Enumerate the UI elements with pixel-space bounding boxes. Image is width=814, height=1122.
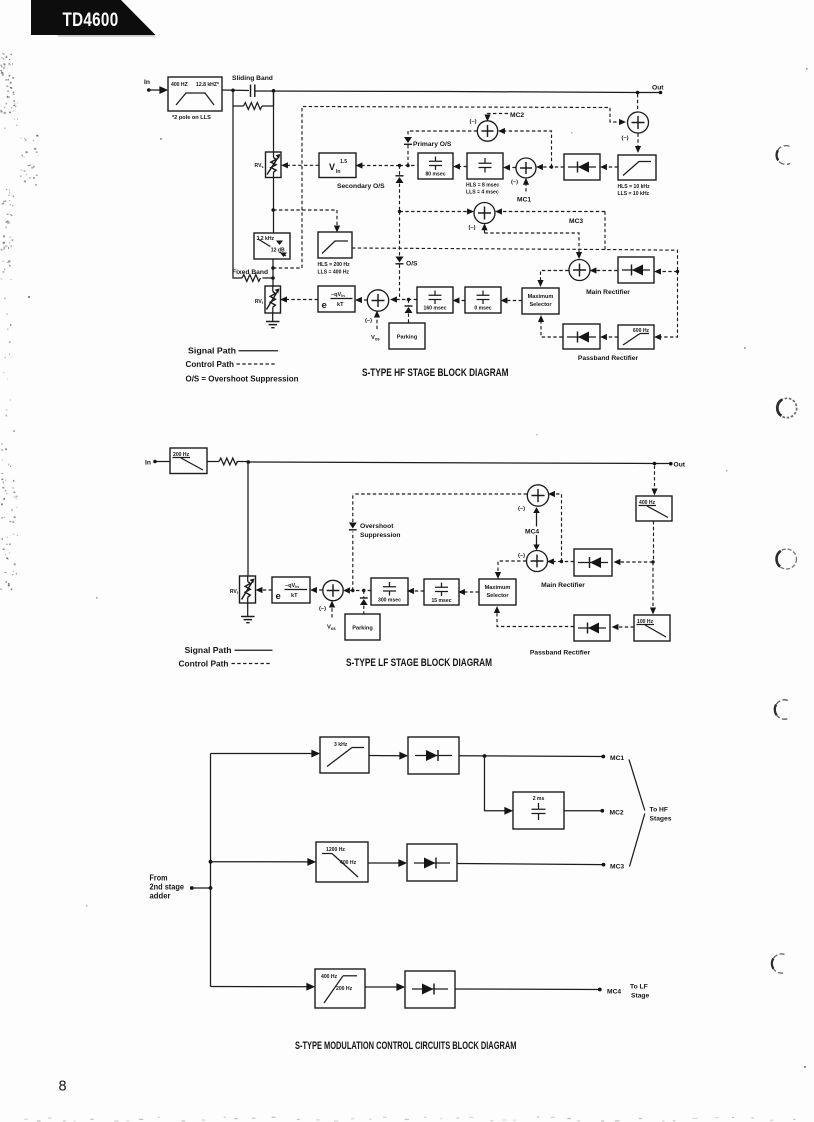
box 3 kHz filter (320, 737, 369, 773)
box 80 msec (418, 153, 453, 179)
svg-text:Stage: Stage (631, 993, 649, 1000)
wire dashed right feed into MC3 adder (499, 211, 606, 213)
wire dashed MC2 control input (488, 112, 525, 119)
svg-text:O/S = Overshoot Suppression: O/S = Overshoot Suppression (186, 374, 299, 383)
wire dashed MC3 adder minus input from 233-line (484, 227, 486, 233)
wire bus to row2 filter (211, 861, 314, 863)
svg-text:12 dB: 12 dB (271, 248, 285, 254)
svg-text:Selector: Selector (486, 593, 509, 599)
svg-text:LLS = 400 Hz: LLS = 400 Hz (318, 270, 350, 276)
svg-text:S-TYPE MODULATION CONTROL CIRC: S-TYPE MODULATION CONTROL CIRCUITS BLOCK… (295, 1040, 517, 1052)
header black banner TD4600 (31, 0, 156, 37)
svg-text:MC3: MC3 (569, 218, 583, 225)
wire dashed output adder to 10kHz filter (637, 134, 639, 150)
box rectifier HF top (564, 154, 600, 180)
svg-text:Control Path: Control Path (179, 660, 229, 669)
svg-text:80 msec: 80 msec (425, 172, 445, 178)
svg-text:Signal Path: Signal Path (188, 347, 236, 356)
box Parking LF (345, 614, 380, 640)
box 100 Hz filter LF (634, 615, 670, 641)
box diode row2 (407, 844, 457, 881)
scan noise left margin (0, 53, 39, 590)
diode on junctionA down branch (396, 166, 404, 214)
svg-text:3 kHz: 3 kHz (334, 742, 348, 748)
label HLS 200 Hz (318, 262, 351, 276)
modulation control circuits diagram (150, 737, 672, 1008)
wire bus to row3 filter (211, 986, 313, 988)
box HLS 10kHz filter (618, 155, 656, 180)
box exponential LF (272, 577, 310, 603)
wire dashed S1 to e-box (359, 299, 368, 301)
wire dashed 400Hz box down to 100Hz box (652, 521, 655, 611)
svg-text:O/S: O/S (406, 261, 418, 268)
wire dashed MC1 control input (517, 181, 531, 203)
svg-text:(–): (–) (622, 136, 629, 142)
attenuator box 3.2 kHz 12 dB (254, 233, 290, 259)
HF legend (186, 347, 299, 384)
summing junction MC4 upper adder (518, 485, 549, 512)
wire row3 filter to diode box (365, 986, 403, 988)
input filter box 400HZ-12.8kHZ (168, 77, 222, 111)
svg-text:Overshoot: Overshoot (360, 523, 394, 530)
diode primary O/S on MC2 drop (404, 131, 412, 166)
ground below RVf (266, 313, 280, 328)
LF stage diagram (145, 448, 686, 657)
wire dashed selector to 15msec (462, 591, 480, 593)
svg-text:e: e (276, 591, 281, 602)
wire dashed 15msec to 300msec (411, 590, 425, 592)
svg-text:RVf: RVf (230, 589, 239, 595)
box 160 msec (417, 287, 453, 313)
svg-text:*2 pole on LLS: *2 pole on LLS (172, 115, 211, 121)
box main rectifier LF (574, 549, 612, 576)
wire dashed junctionB to 80msec box (400, 165, 418, 167)
svg-text:Control Path: Control Path (186, 360, 235, 369)
svg-text:MC3: MC3 (610, 864, 624, 871)
punch hole 1 (777, 146, 790, 165)
svg-text:kT: kT (291, 593, 298, 599)
wire dashed S2 to e-box (314, 589, 323, 591)
wire dashed Vos into S1 (371, 314, 380, 342)
wire RVs down to 3.2kHz box (271, 178, 275, 234)
wire dashed 100Hz to passband LF (615, 626, 634, 628)
svg-text:LLS = 10 kHz: LLS = 10 kHz (618, 191, 650, 197)
svg-text:MC2: MC2 (510, 112, 524, 119)
svg-text:S-TYPE LF STAGE BLOCK DIAGRA: S-TYPE LF STAGE BLOCK DIAGRAM (346, 657, 492, 669)
diode O/S (396, 257, 404, 300)
summing junction output adder (622, 112, 649, 142)
svg-text:Passband Rectifier: Passband Rectifier (530, 650, 591, 657)
wire 3.2kHz box to RVf (271, 259, 275, 286)
wire row2 to MC3 (457, 863, 605, 867)
svg-text:MC1: MC1 (517, 197, 531, 204)
svg-text:TD4600: TD4600 (63, 8, 119, 30)
wire dashed 0msec to 160msec (456, 300, 465, 302)
summing junction MC1 adder (511, 158, 536, 186)
svg-text:Passband Rectifier: Passband Rectifier (578, 355, 639, 362)
svg-text:MC2: MC2 (610, 810, 624, 817)
wire dashed selector to 0msec (504, 300, 522, 302)
wire dashed right column down to 600Hz box (658, 272, 678, 338)
wire dashed Vos into S2 (327, 604, 336, 631)
summing junction S2 LF (319, 580, 343, 612)
box 600 Hz filter (618, 325, 654, 349)
wire bus to 3kHz box (211, 753, 318, 755)
box HLS200 filter (318, 232, 352, 258)
wire dashed MC4 adder output left line (353, 493, 527, 495)
svg-text:LLS = 4 msec: LLS = 4 msec (466, 190, 499, 196)
box 2 ms (513, 792, 564, 829)
svg-text:To LF: To LF (630, 984, 648, 991)
svg-text:Main Rectifier: Main Rectifier (586, 289, 630, 296)
wire dashed MC1 adder to HLS8 box (507, 167, 516, 169)
box main rectifier HF (618, 257, 654, 283)
svg-text:V: V (329, 162, 335, 172)
wire dashed junction up to MC2 adder (502, 131, 552, 167)
box passband rectifier LF (574, 615, 610, 641)
svg-text:1200 Hz: 1200 Hz (326, 847, 345, 853)
svg-text:Sliding Band: Sliding Band (232, 75, 273, 82)
svg-text:(–): (–) (469, 225, 476, 231)
wire 3kHz to diode box row1 (369, 755, 406, 757)
svg-text:adder: adder (150, 892, 171, 901)
wire dashed 250-line from HLS200 box to right column (352, 248, 679, 273)
bracket to HF stages (629, 760, 672, 867)
svg-text:Vos: Vos (327, 625, 336, 632)
wire dashed right column into main rect box (658, 271, 678, 273)
wire dashed MC2 adder output to drop (408, 130, 477, 132)
svg-text:Vos: Vos (371, 335, 380, 342)
svg-text:HLS = 10 kHz: HLS = 10 kHz (618, 184, 651, 190)
summing junction main adder LF (518, 551, 548, 572)
capacitor sliding band (251, 85, 255, 98)
wire In to 200Hz box (155, 461, 170, 463)
svg-text:2 ms: 2 ms (533, 796, 545, 802)
box Parking HF (389, 323, 425, 349)
wire branch down to 2ms box (485, 756, 511, 811)
wire dashed passband LF to selector bottom (497, 610, 574, 627)
box 0 msec (465, 287, 501, 313)
wire row1 to MC1 (459, 754, 605, 758)
wire MC4 control double arrow (524, 507, 542, 550)
svg-text:To HF: To HF (650, 807, 668, 814)
punch hole 2 (777, 398, 796, 417)
svg-text:HLS = 200 Hz: HLS = 200 Hz (318, 262, 351, 268)
svg-text:(–): (–) (511, 180, 518, 186)
svg-text:RVf: RVf (255, 299, 264, 305)
variable resistor RVs (255, 152, 281, 178)
svg-text:MC1: MC1 (610, 755, 624, 762)
wire right vertical into RVs (273, 91, 275, 152)
wire bus vertical (209, 754, 213, 987)
svg-text:In: In (145, 460, 151, 467)
wire dashed e-box to RVf (284, 299, 319, 301)
wire dashed junctionC through O/S diode to S1 line (399, 212, 401, 256)
svg-text:1.5: 1.5 (340, 159, 347, 165)
wire dashed MC3 feed corner down to 250-line (604, 212, 606, 250)
wire dashed junction to main adder LF (551, 561, 562, 563)
wire dashed passband to selector bottom (541, 319, 563, 338)
box Maximum Selector LF (479, 579, 516, 605)
label Overshoot Suppression (360, 523, 401, 539)
wire dashed rectifier output to MC1 adder junction (540, 165, 565, 168)
wire dashed main rect box to adder (593, 270, 618, 272)
svg-text:Parking: Parking (397, 335, 418, 341)
svg-text:Secondary O/S: Secondary O/S (337, 183, 385, 190)
svg-text:400 Hz: 400 Hz (321, 974, 338, 980)
svg-text:(–): (–) (470, 119, 477, 125)
wire dashed 10kHz filter to rectifier (604, 166, 619, 168)
svg-text:Primary O/S: Primary O/S (413, 141, 452, 148)
wire 2ms to MC2 (564, 809, 604, 813)
diode into parking branch (405, 300, 413, 324)
wire dashed HLS8 box to 80msec (457, 166, 468, 168)
wire dashed main adder to selector top (541, 271, 569, 284)
diode overshoot suppression (349, 494, 357, 530)
box passband rectifier HF (563, 324, 600, 349)
wire LF main line to Out (247, 460, 673, 465)
svg-text:Parking: Parking (352, 626, 373, 632)
variable resistor RVf (255, 286, 281, 313)
svg-text:–qVIn: –qVIn (331, 292, 345, 298)
svg-text:HLS = 8 msec: HLS = 8 msec (466, 183, 499, 189)
svg-text:12.8 kHZ*: 12.8 kHZ* (196, 82, 219, 88)
box 400Hz 200Hz shelf filter (315, 969, 365, 1008)
box 400 Hz filter LF (636, 496, 672, 521)
wire dashed main adder LF to selector top (498, 561, 526, 576)
svg-text:(–): (–) (319, 606, 326, 612)
node output (636, 85, 664, 95)
wire In to input filter (149, 89, 166, 91)
svg-text:(–): (–) (365, 318, 372, 324)
svg-text:15 msec: 15 msec (431, 598, 451, 604)
wire dashed 600Hz to passband box (604, 336, 619, 338)
node from adder stub (190, 886, 213, 890)
box 300 msec (371, 578, 408, 605)
wire dashed Vin to RVs (285, 164, 320, 166)
wire LF vertical down to RVf (247, 462, 249, 576)
ground LF (241, 603, 255, 623)
wire dashed out node down to output adder (637, 94, 639, 112)
svg-text:0 msec: 0 msec (474, 306, 491, 312)
svg-text:S-TYPE HF STAGE BLOCK DIAGRA: S-TYPE HF STAGE BLOCK DIAGRAM (362, 367, 509, 379)
resistor parallel sliding-band (233, 90, 274, 109)
box diode row3 (405, 971, 455, 1008)
box 200 Hz input filter (170, 448, 207, 474)
svg-text:Maximum: Maximum (528, 294, 554, 300)
label HLS 8 msec (466, 183, 499, 196)
svg-text:Stages: Stages (650, 816, 672, 823)
svg-text:Out: Out (674, 462, 686, 469)
node In terminal (144, 79, 151, 92)
summing junction S1 (365, 290, 389, 324)
diode parking branch LF (360, 591, 368, 615)
svg-text:In: In (336, 169, 341, 175)
wire row3 to MC4 (455, 988, 602, 992)
node MC4 out (607, 984, 649, 1000)
svg-text:400 HZ: 400 HZ (171, 82, 188, 88)
variable resistor RVf LF (230, 576, 256, 603)
resistor LF series (207, 458, 248, 465)
wire dashed e-box to RVf LF (259, 589, 272, 591)
HF stage diagram (144, 75, 679, 362)
summing junction MC2 adder (470, 119, 498, 141)
svg-text:MC4: MC4 (525, 529, 539, 536)
svg-text:(–): (–) (518, 553, 525, 559)
svg-text:2nd stage: 2nd stage (150, 883, 185, 892)
node junction dots on main line (231, 89, 235, 93)
svg-text:e: e (322, 300, 327, 311)
summing junction MC3 adder (469, 203, 496, 232)
svg-text:Maximum: Maximum (485, 585, 511, 591)
svg-text:Main Rectifier: Main Rectifier (541, 582, 585, 589)
wire dashed junctionA to Vin (359, 164, 410, 167)
box diode row1 (408, 737, 459, 774)
svg-text:(–): (–) (518, 506, 525, 512)
svg-text:160 msec: 160 msec (424, 306, 447, 312)
wire dashed 160msec to S1 adder (394, 298, 418, 301)
label From 2nd stage adder (150, 874, 185, 901)
summing junction main rectifier adder (569, 260, 590, 281)
wire dashed 300msec to S2 (347, 589, 372, 592)
wire dashed junctionC to MC3 adder (400, 211, 471, 213)
box 15 msec (424, 579, 459, 605)
svg-text:MC4: MC4 (607, 989, 621, 996)
resistor fixed band (242, 275, 275, 282)
wire cap to Out (255, 91, 661, 93)
svg-text:From: From (150, 874, 168, 883)
box exponential e^-qVin/kT (318, 286, 355, 312)
wire dashed overshoot suppression branch (352, 532, 354, 591)
box 1200Hz 400Hz shelf filter (316, 842, 368, 882)
label HLS 10 kHz (618, 184, 651, 197)
svg-text:300 msec: 300 msec (378, 598, 401, 604)
punch hole 4 (775, 700, 788, 719)
wire dashed out node to 400Hz box (654, 466, 656, 493)
svg-text:kT: kT (337, 302, 344, 308)
svg-text:In: In (144, 79, 150, 86)
wire dashed RVs node to HLS200 box top (273, 210, 337, 229)
wire dashed main rect LF to junction (562, 561, 575, 563)
LF legend (179, 646, 273, 669)
svg-text:–qVIn: –qVIn (285, 583, 299, 589)
wire main HF signal line (222, 89, 249, 92)
svg-text:Out: Out (652, 85, 664, 92)
wire dashed long control line y107 to output adder (273, 107, 623, 269)
svg-text:8: 8 (59, 1079, 67, 1095)
svg-text:400 Hz: 400 Hz (340, 860, 357, 866)
box Maximum Selector HF (522, 288, 559, 314)
svg-text:Suppression: Suppression (360, 532, 401, 539)
wire dashed 233-line into main-rect adder top (485, 233, 580, 256)
punch hole 3 (777, 549, 797, 569)
node In LF (145, 460, 157, 467)
wire dashed 400Hz column into main rect LF (617, 560, 655, 563)
wire row2 filter to diode box (368, 862, 405, 864)
svg-text:Selector: Selector (529, 302, 552, 308)
svg-text:Signal Path: Signal Path (185, 646, 232, 655)
box Vin^1.5 secondary O/S computer (319, 153, 356, 178)
wire left vertical to fixed band (233, 106, 242, 278)
wire dashed right feed into MC4 upper adder (552, 494, 564, 563)
box HLS 8msec LLS 4msec (467, 153, 503, 179)
svg-text:RVs: RVs (255, 163, 264, 169)
punch hole 5 (772, 954, 785, 973)
svg-text:200 Hz: 200 Hz (336, 986, 353, 992)
